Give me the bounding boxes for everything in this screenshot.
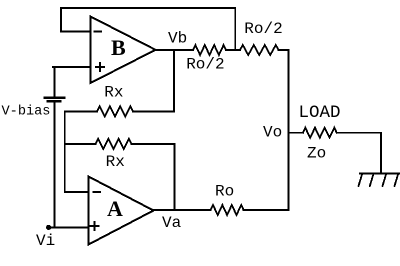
svg-text:Va: Va [162, 214, 182, 232]
wire: B output to Ro/2 resistors (node Vb) [156, 49, 194, 51]
svg-text:Rx: Rx [104, 84, 123, 102]
wire: Vb node down to Rx1 [173, 50, 175, 111]
wire: Vi to A non-inverting input [49, 227, 89, 229]
wire: left vertical joining Rx1, Rx2 and A- input [64, 111, 66, 192]
ground [359, 174, 400, 187]
svg-text:Zo: Zo [307, 145, 326, 163]
resistor R5 Ro [211, 205, 244, 215]
svg-text:B: B [111, 35, 126, 60]
wire: load down to ground [380, 133, 382, 174]
wire: right rail vertical (R2 down to Ro, through node Vo) [288, 50, 290, 210]
resistor R2 Ro/2 (second) [240, 45, 279, 55]
battery V-bias [54, 67, 56, 97]
svg-text:Vi: Vi [36, 232, 55, 250]
svg-text:Ro/2: Ro/2 [244, 20, 282, 38]
resistor R3 Rx (upper) [65, 110, 97, 112]
resistor R4 Rx (lower) [65, 143, 96, 145]
wire: Rx2 right vertical down to node Va [173, 144, 175, 210]
wire: A output to Ro (node Va) [154, 209, 211, 211]
wire: B inverting input horizontal [61, 31, 91, 33]
wire: feedback right vertical down to junction between Ro/2 resistors [234, 8, 236, 50]
wire: between Ro/2 resistors [226, 49, 240, 51]
wire: Ro to right rail [244, 209, 289, 211]
wire: B non-inverting input [53, 66, 91, 68]
svg-text:V-bias: V-bias [2, 105, 51, 120]
svg-text:Ro/2: Ro/2 [186, 56, 224, 74]
wire: feedback left vertical down to B- input [60, 8, 62, 32]
wire: feedback top horizontal (B- to Ro/2 midpoint) [61, 7, 235, 9]
svg-text:Vo: Vo [263, 124, 282, 142]
op-amp U2 (A) [89, 177, 154, 245]
svg-text:Ro: Ro [215, 183, 234, 201]
svg-text:Vb: Vb [168, 30, 187, 48]
resistor R6 Zo (LOAD) [289, 132, 303, 134]
wire: R2 to right rail [279, 49, 289, 51]
node Vi junction dot [46, 225, 51, 230]
svg-text:Rx: Rx [106, 153, 125, 171]
svg-text:A: A [107, 196, 123, 221]
svg-text:LOAD: LOAD [299, 103, 341, 123]
wire: A inverting input horizontal [65, 191, 89, 193]
op-amp U1 (B) [91, 17, 156, 84]
resistor R1 Ro/2 (first) [193, 45, 226, 55]
